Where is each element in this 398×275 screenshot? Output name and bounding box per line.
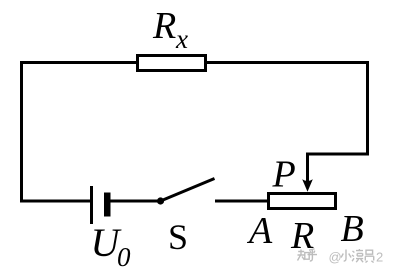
svg-text:S: S (168, 217, 188, 257)
svg-text:2: 2 (376, 250, 383, 265)
svg-text:@: @ (329, 250, 342, 265)
svg-text:x: x (175, 24, 188, 54)
svg-text:R: R (152, 5, 176, 47)
svg-text:B: B (341, 208, 364, 250)
svg-text:A: A (246, 210, 273, 252)
svg-text:R: R (290, 215, 314, 257)
svg-text:0: 0 (117, 242, 131, 272)
svg-text:P: P (272, 154, 296, 196)
